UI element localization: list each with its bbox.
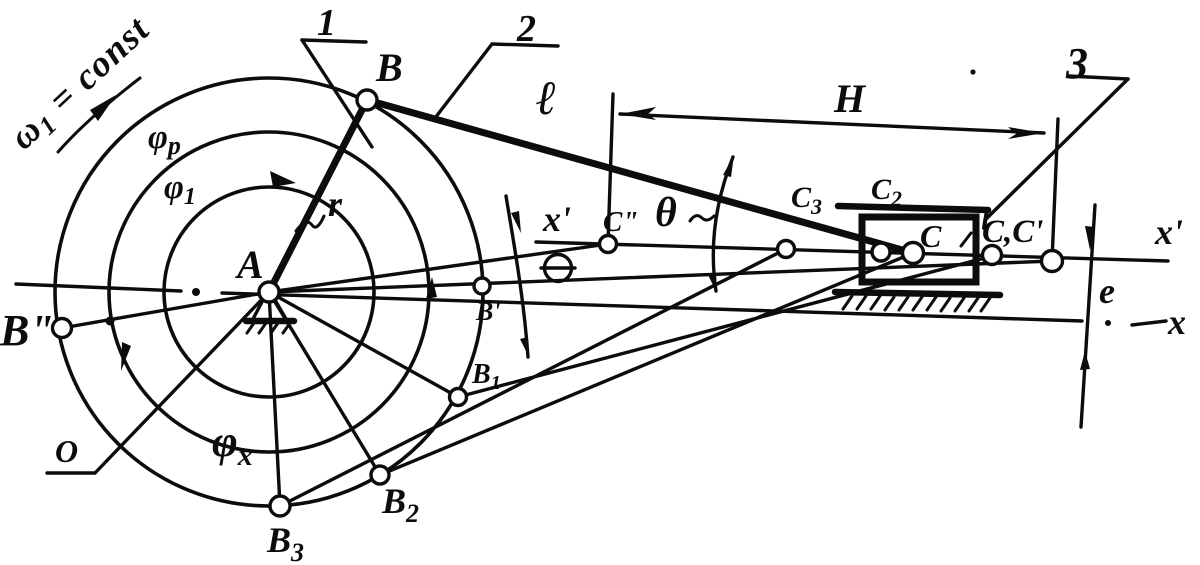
- svg-text:2: 2: [516, 8, 536, 50]
- svg-text:H: H: [833, 76, 867, 121]
- svg-text:C,C': C,C': [982, 214, 1043, 250]
- svg-text:C": C": [603, 206, 638, 238]
- svg-text:1: 1: [317, 2, 336, 44]
- svg-text:B": B": [0, 306, 54, 355]
- svg-text:B: B: [375, 45, 403, 90]
- svg-text:x: x: [1167, 302, 1186, 342]
- svg-text:C: C: [920, 218, 942, 254]
- svg-text:3: 3: [1065, 39, 1088, 88]
- svg-text:ℓ: ℓ: [536, 72, 557, 125]
- svg-text:B': B': [475, 297, 501, 326]
- svg-text:x': x': [542, 199, 571, 239]
- svg-text:A: A: [234, 242, 264, 287]
- svg-text:r: r: [328, 184, 343, 224]
- svg-text:O: O: [55, 433, 78, 469]
- svg-text:θ: θ: [655, 190, 677, 236]
- svg-text:x': x': [1154, 212, 1183, 252]
- svg-text:e: e: [1099, 271, 1115, 311]
